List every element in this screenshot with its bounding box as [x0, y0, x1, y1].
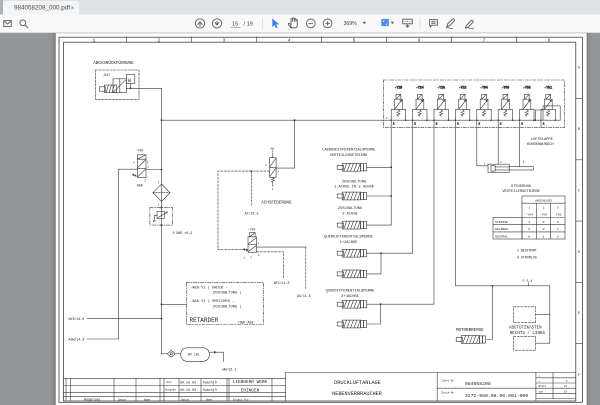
cylinder actuator laengsdiff	[337, 163, 366, 171]
svg-text:W: W	[128, 78, 131, 84]
svg-text:5: 5	[353, 38, 356, 43]
svg-text:19: 19	[564, 390, 568, 393]
node motorbremse branch	[492, 285, 494, 287]
toolbar icon: zoom in	[323, 19, 332, 28]
wire tank out to WW/16.1	[209, 351, 223, 361]
B47 valve body	[113, 79, 127, 93]
node querdiff34 branch	[380, 303, 382, 305]
pilot Y30 to WPZ (dashed)	[257, 252, 284, 278]
toolbar icon: fit page (blue)	[381, 19, 394, 26]
svg-text:Zeich-Nr:: Zeich-Nr:	[442, 391, 456, 395]
top zone ticks	[127, 37, 517, 42]
node regulator bottom	[161, 224, 163, 226]
svg-text:7: 7	[483, 38, 486, 43]
node pilot branch	[250, 170, 252, 172]
valve manifold dashed enclosure	[384, 80, 565, 128]
svg-text:1: 1	[528, 220, 530, 224]
svg-text:A3W/14.8: A3W/14.8	[69, 338, 85, 342]
text LUFTKLAPPE KUNDENWUNSCH	[527, 138, 554, 147]
svg-text:-Y24: -Y24	[416, 86, 424, 90]
pilot line Y6 to Y30 (dashed)	[218, 171, 270, 250]
svg-text:0: 0	[557, 220, 559, 224]
wire A3W/14.8	[87, 338, 119, 340]
right zone ticks	[576, 99, 583, 344]
legend bestromt/stromlos	[517, 249, 537, 260]
svg-text:0: 0	[543, 227, 545, 231]
svg-text:1.ACHSE IN 2.ACHSE: 1.ACHSE IN 2.ACHSE	[334, 186, 375, 190]
title block	[64, 373, 576, 402]
svg-text:WPZ/11.8: WPZ/11.8	[274, 281, 290, 285]
svg-text:-B47: -B47	[103, 73, 111, 77]
wire Y6 supply from manifold line	[276, 119, 295, 168]
drawing frame outer border	[59, 37, 582, 402]
svg-text:VERTEILERGETRIEBE: VERTEILERGETRIEBE	[502, 190, 540, 194]
pilot stub to AF/16.8 (dashed)	[250, 171, 252, 205]
wire main to retarder	[161, 303, 187, 305]
svg-text:WV3/14.8: WV3/14.8	[69, 317, 85, 321]
svg-text:D: D	[578, 251, 580, 255]
wire to abstuetzkasten boxes	[549, 286, 551, 343]
svg-text:von: von	[539, 390, 544, 393]
toolbar icon: page down	[212, 19, 221, 28]
toolbar icon: page up	[195, 19, 204, 28]
svg-text:E: E	[578, 312, 580, 316]
svg-text:TwachjO: TwachjO	[203, 380, 217, 385]
svg-text:Ersatz für:: Ersatz für:	[233, 398, 250, 402]
wire feeder V7 (Y65) to flap port 3	[519, 120, 521, 167]
port P 5.4	[523, 279, 533, 286]
svg-text:RETARDER: RETARDER	[190, 317, 219, 324]
B47 cylinder	[100, 85, 117, 93]
text abstuetzkasten	[509, 326, 545, 336]
svg-text:-A88-Y2 ( SPEICHER -: -A88-Y2 ( SPEICHER -	[190, 299, 234, 304]
cylinder actuator motorbremse	[456, 336, 485, 344]
svg-text:-Y64: -Y64	[480, 86, 488, 90]
valve -Y25	[433, 86, 449, 126]
port labels flap cylinder	[484, 161, 525, 166]
valve Y40	[132, 155, 149, 183]
svg-text:1: 1	[93, 38, 96, 43]
toolbar icon: comment	[430, 20, 438, 27]
cylinder actuator querdiff34b	[337, 320, 366, 328]
svg-text:ZUSCHALTUNG ): ZUSCHALTUNG )	[213, 304, 242, 309]
toolbar icon: search magnifier	[20, 20, 28, 28]
wire cyl1 connect	[367, 166, 392, 168]
svg-text:DRUCKLUFTANLAGE: DRUCKLUFTANLAGE	[334, 380, 381, 386]
text laengsdifferentialsperre	[322, 149, 376, 158]
title block texts left	[84, 380, 250, 402]
svg-text:3: 3	[223, 38, 226, 43]
table anschluss	[493, 196, 565, 239]
svg-text:ANSCHLUSS: ANSCHLUSS	[535, 198, 552, 202]
node main/top-bus junction	[161, 119, 163, 121]
svg-text:-Y51: -Y51	[544, 86, 552, 90]
svg-text:-Y20: -Y20	[395, 86, 403, 90]
svg-text:STRASSE: STRASSE	[495, 220, 508, 224]
svg-text:GELÄNDE: GELÄNDE	[495, 227, 508, 231]
svg-text:3: 3	[557, 206, 559, 210]
wire Y30 out to AA (solid then dashed)	[257, 246, 306, 248]
cylinder actuator querdiff12b	[337, 270, 366, 278]
svg-text:1 BESTROMT: 1 BESTROMT	[517, 249, 537, 253]
svg-text:0: 0	[557, 234, 559, 238]
wire check valve to tank	[175, 353, 181, 355]
svg-text:-Y30: -Y30	[248, 227, 256, 231]
node querdiff12 branch	[380, 252, 382, 254]
svg-text:Blatt: Blatt	[539, 384, 547, 388]
svg-text:ABGASRÜCKFÜHRUNG: ABGASRÜCKFÜHRUNG	[93, 61, 134, 66]
svg-text:-Y65: -Y65	[554, 213, 562, 217]
svg-text:WV 10L: WV 10L	[188, 352, 200, 356]
pressure regulator enclosure	[150, 208, 173, 226]
svg-text:15: 15	[564, 385, 568, 388]
svg-text:6: 6	[418, 38, 421, 43]
title block drawing name	[332, 380, 382, 397]
svg-text:984058208: 984058208	[465, 381, 491, 387]
svg-text:-A88-Y1 ( DRUCK -: -A88-Y1 ( DRUCK -	[190, 285, 228, 290]
cylinder luftklappe	[488, 164, 533, 172]
svg-text:0: 0	[543, 220, 545, 224]
svg-text:AF/16.8: AF/16.8	[245, 212, 259, 216]
wire main line bottom	[162, 353, 168, 355]
wire feeder V2 (Y24) to querdiff 1+2	[367, 120, 413, 253]
valve -Y64	[476, 86, 492, 126]
wire branch to cyl5b	[367, 304, 381, 324]
svg-text:-Y25: -Y25	[437, 86, 445, 90]
wire Y40 left branch down	[119, 169, 138, 339]
svg-text:0: 0	[528, 227, 530, 231]
svg-text:ZUSCHALTUNG ): ZUSCHALTUNG )	[213, 291, 242, 296]
valve -Y65	[519, 86, 535, 126]
toolbar icon: presentation	[403, 19, 413, 27]
svg-text:0: 0	[528, 234, 530, 238]
text querdiff 3+4	[326, 290, 375, 299]
svg-text:MOTORBREMSE: MOTORBREMSE	[456, 329, 484, 333]
svg-text:2: 2	[543, 206, 545, 210]
text zuschaltung 3	[338, 207, 362, 216]
svg-text:VERTEILERGETRIEBE: VERTEILERGETRIEBE	[330, 154, 368, 158]
svg-text:P 5.4: P 5.4	[523, 279, 533, 283]
svg-text:-Y52: -Y52	[459, 86, 467, 90]
svg-text:NEUTRAL: NEUTRAL	[495, 234, 508, 238]
box abstuetzkasten left	[514, 337, 536, 351]
toolbar separator	[262, 18, 264, 30]
main supply vertical wire	[161, 88, 163, 354]
wire WV3/14.8	[87, 318, 162, 320]
svg-text:RECHTS / LINKS: RECHTS / LINKS	[510, 331, 546, 336]
text A88-Y2	[190, 299, 242, 309]
svg-text:LAENGSDIFFERENTIALSPERRE: LAENGSDIFFERENTIALSPERRE	[322, 149, 376, 153]
pressure regulator valve	[153, 211, 167, 222]
svg-text:-Y64: -Y64	[525, 213, 533, 217]
text A88-Y1	[190, 285, 242, 295]
svg-text:1: 1	[557, 227, 559, 231]
svg-text:C: C	[578, 189, 580, 193]
title block numbers	[442, 379, 529, 400]
wire feeder V8 (Y51) stub	[540, 120, 542, 127]
svg-text:AA/11.8: AA/11.8	[297, 294, 311, 298]
B47 W element	[126, 75, 135, 85]
top zone numbers	[93, 38, 551, 43]
svg-text:-Y65: -Y65	[523, 86, 531, 90]
wire feeder V1 (Y20) to diff-lock cylinders	[390, 120, 392, 225]
svg-text:Änderung: Änderung	[84, 398, 100, 403]
svg-text:Datum: Datum	[118, 399, 126, 402]
wire cyl3 connect	[367, 224, 392, 226]
wire B47 to main line	[126, 84, 161, 90]
valve -Y52	[455, 86, 471, 126]
svg-text:-Y66: -Y66	[502, 86, 510, 90]
svg-text:-Y66: -Y66	[540, 213, 548, 217]
svg-text:TwachjO: TwachjO	[203, 388, 217, 393]
text STEUERUNG VERTEILERGETRIEBE	[502, 185, 540, 194]
svg-text:F: F	[578, 374, 580, 378]
valve -Y24	[412, 86, 428, 126]
text zuschaltung 1in2	[334, 180, 375, 189]
svg-text:QUERDIFFERENTIALSPERRE: QUERDIFFERENTIALSPERRE	[326, 290, 375, 294]
toolbar separator	[419, 18, 421, 30]
svg-text:LUFTKLAPPE: LUFTKLAPPE	[531, 138, 554, 142]
svg-text:KUNDENWUNSCH: KUNDENWUNSCH	[527, 143, 554, 147]
svg-text:QUERDIFFERENTIALSPERRE: QUERDIFFERENTIALSPERRE	[324, 235, 373, 239]
svg-text:WW/16.1: WW/16.1	[223, 367, 237, 371]
toolbar icon: signature	[465, 20, 474, 28]
page number field	[231, 22, 253, 28]
svg-text:ABSTÜTZKASTEN: ABSTÜTZKASTEN	[509, 326, 542, 331]
wire to motorbremse cylinder	[487, 286, 493, 340]
svg-text:STEUERUNG: STEUERUNG	[511, 185, 531, 189]
svg-text:Datum: Datum	[181, 399, 189, 402]
wire branch to cyl4b	[367, 253, 382, 274]
svg-text:30.10.03: 30.10.03	[180, 389, 196, 393]
toolbar icon: select cursor (blue)	[272, 19, 279, 29]
svg-text:4: 4	[288, 38, 291, 43]
text querdiff 1+2	[324, 235, 373, 244]
svg-text:EHINGEN: EHINGEN	[241, 389, 260, 394]
svg-text:B: B	[578, 128, 580, 132]
svg-text:3+4ACHSE: 3+4ACHSE	[341, 295, 359, 299]
svg-text:ACHSFEDERUNG: ACHSFEDERUNG	[261, 201, 292, 205]
svg-text:1+2ACHSE: 1+2ACHSE	[340, 241, 358, 245]
toolbar icon: hand tool	[288, 18, 297, 28]
svg-text:0 STROMLOS: 0 STROMLOS	[517, 256, 537, 260]
tank WV 10L	[181, 348, 210, 362]
svg-text:3272-950.06.00.001-000: 3272-950.06.00.001-000	[465, 393, 528, 399]
svg-text:1: 1	[543, 234, 545, 238]
svg-text:AGR: AGR	[137, 183, 143, 187]
box abstuetzkasten right	[514, 307, 536, 323]
valve -Y20	[390, 86, 406, 126]
sensor B47 dashed enclosure	[96, 70, 140, 99]
right zone letters	[578, 67, 581, 378]
svg-text:Name: Name	[144, 399, 151, 402]
valve Y30	[243, 233, 260, 260]
retarder dashed enclosure	[186, 282, 263, 324]
svg-text:8 BAR ±0,2: 8 BAR ±0,2	[173, 231, 193, 235]
wire feeder V6 (Y66) to flap port 2	[497, 120, 499, 164]
svg-text:+SWF-A88: +SWF-A88	[238, 320, 254, 324]
title block small table texts	[539, 375, 569, 394]
cylinder actuator zuschalt3	[337, 221, 366, 229]
drawing frame inner border	[64, 42, 576, 401]
toolbar icon: draw pen	[446, 19, 455, 29]
svg-text:LIEBHERR WERK: LIEBHERR WERK	[233, 380, 268, 385]
node regulator top	[161, 207, 163, 209]
wire feeder V3 (Y25) to querdiff 3+4	[367, 120, 435, 304]
svg-text:NEBENVERBRAUCHER: NEBENVERBRAUCHER	[332, 391, 382, 397]
svg-text:Ident-Nr:: Ident-Nr:	[442, 379, 456, 383]
toolbar icon: envelope	[4, 21, 11, 27]
valve Y6	[265, 151, 279, 191]
toolbar icon: zoom out	[306, 19, 315, 28]
svg-text:Name: Name	[206, 399, 213, 402]
wire feeder V4 (Y52) to P-line	[455, 120, 549, 286]
cylinder actuator querdiff34a	[337, 300, 366, 308]
svg-text:Ausgabe: Ausgabe	[165, 388, 176, 392]
svg-text:-Y40: -Y40	[135, 148, 143, 152]
main supply horizontal wire to valve manifold	[162, 119, 546, 121]
wire Y40 to main line	[146, 169, 162, 171]
svg-text:2: 2	[158, 38, 161, 43]
svg-text:ZUSCHALTUNG: ZUSCHALTUNG	[338, 207, 362, 211]
svg-text:1: 1	[528, 206, 530, 210]
svg-text:30.10.03: 30.10.03	[180, 381, 196, 385]
svg-text:ZUSCHALTUNG: ZUSCHALTUNG	[342, 180, 366, 184]
valve -Y51	[535, 86, 561, 126]
svg-text:8: 8	[548, 38, 551, 43]
wire cyl2 connect	[367, 195, 392, 197]
pdf toolbar	[0, 15, 600, 33]
check valve	[167, 350, 175, 357]
svg-text:Gez.: Gez.	[167, 381, 173, 384]
filter F1	[153, 181, 170, 207]
browser tab bar	[0, 0, 600, 15]
cylinder actuator querdiff12a	[337, 249, 366, 257]
title block liebherr	[233, 380, 268, 394]
valve -Y66	[497, 86, 513, 126]
wire feeder V5 (Y64) to flap port 1	[477, 120, 488, 166]
zoom percent	[344, 21, 367, 27]
cylinder actuator zuschalt12	[337, 192, 366, 200]
svg-text:3.ACHSE: 3.ACHSE	[342, 212, 358, 216]
